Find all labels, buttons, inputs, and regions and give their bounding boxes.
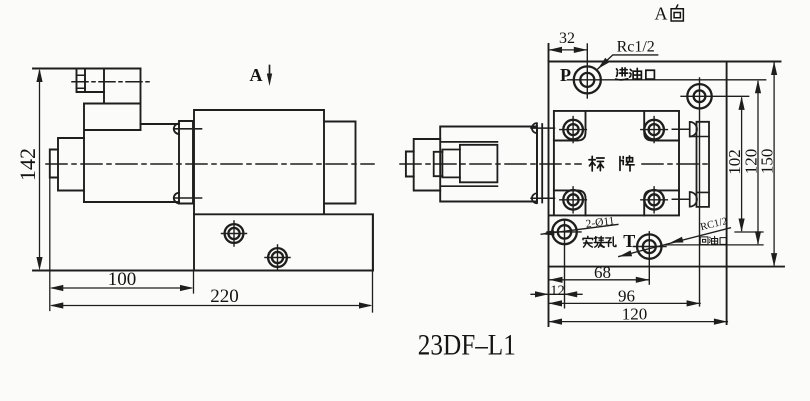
centerline left view bbox=[46, 163, 374, 165]
top extension line (142 dim) / connector top bbox=[33, 68, 141, 70]
inner valve body bbox=[549, 111, 679, 215]
port T extension right bbox=[666, 244, 763, 246]
silhouette pole tube bbox=[414, 139, 441, 191]
dim 120 right bbox=[757, 82, 759, 244]
glyph xiang (A-xiang title) bbox=[671, 5, 683, 21]
tab dome bottom bbox=[690, 192, 697, 207]
pad top-right bbox=[644, 111, 679, 141]
corner bolt TL bbox=[560, 117, 587, 143]
tip pin bbox=[50, 150, 58, 178]
svg-text:142: 142 bbox=[15, 148, 40, 181]
svg-text:T: T bbox=[623, 231, 635, 251]
port P vertical centerline bbox=[586, 44, 588, 98]
silhouette tip bbox=[406, 152, 414, 177]
svg-text:P: P bbox=[560, 65, 571, 85]
dim 96 bbox=[549, 302, 701, 304]
BL hole dim extension near 102 bbox=[735, 231, 763, 233]
leader Rc1/2 bbox=[598, 55, 658, 69]
svg-text:A: A bbox=[655, 4, 668, 24]
BL hole vertical extension bbox=[564, 220, 566, 308]
glyph kou (mouth/port) bbox=[646, 70, 655, 79]
centerline right view bbox=[400, 163, 710, 165]
base bolt 1 bbox=[222, 221, 247, 246]
corner bolt BL bbox=[560, 187, 587, 213]
plate bolt bump bottom bbox=[174, 193, 179, 203]
solenoid main body bbox=[84, 124, 179, 202]
tab tick bottom bbox=[672, 198, 689, 200]
dimension 142 bbox=[39, 71, 41, 264]
corner bolt TR bbox=[641, 117, 668, 143]
corner bolt BR bbox=[641, 187, 668, 213]
dimension 220 bbox=[52, 214, 373, 312]
leader 2-O11 bbox=[541, 224, 618, 234]
connector centerline bbox=[72, 81, 152, 83]
svg-text:32: 32 bbox=[559, 30, 575, 47]
base bottom line + 142 extension bbox=[33, 270, 373, 272]
bottom-left mounting hole bbox=[552, 220, 577, 245]
connector main box bbox=[84, 69, 141, 131]
dim 120 bottom bbox=[549, 321, 728, 323]
dimension 100 bbox=[50, 178, 194, 311]
tab dome top bbox=[690, 122, 697, 137]
glyph kou2 (port, return label) bbox=[720, 238, 726, 245]
top-right mounting hole bbox=[687, 84, 711, 108]
glyph an (install 1) bbox=[583, 236, 593, 247]
BL hole cross bbox=[547, 231, 581, 233]
silhouette box A bbox=[434, 152, 443, 176]
glyph kong (hole) bbox=[606, 237, 616, 247]
svg-text:100: 100 bbox=[108, 269, 137, 290]
port T circles bbox=[637, 234, 661, 258]
leader T port (RC1/2 return) bbox=[619, 228, 731, 257]
glyph hui (return) bbox=[700, 237, 708, 245]
adapter plate verticals bbox=[537, 124, 542, 203]
port P circles bbox=[574, 66, 601, 93]
tab tick top bbox=[672, 128, 689, 130]
silhouette box C bbox=[460, 145, 498, 183]
gland thread lines bbox=[77, 75, 86, 88]
mounting plate bbox=[179, 121, 193, 204]
svg-text:Rc1/2: Rc1/2 bbox=[617, 39, 655, 56]
view arrow A bbox=[269, 66, 271, 75]
pad bottom-right bbox=[644, 190, 679, 215]
svg-text:120: 120 bbox=[622, 305, 648, 324]
pad top-left bbox=[554, 111, 586, 141]
dim 12 bbox=[531, 293, 582, 295]
adapter bump top bbox=[532, 123, 537, 133]
plate bolt bump top bbox=[174, 124, 179, 134]
pad bottom-left bbox=[554, 190, 586, 215]
glyph pai (plate) bbox=[620, 156, 634, 171]
adapter bump bottom bbox=[532, 193, 537, 203]
svg-text:12: 12 bbox=[550, 283, 565, 299]
dim 150 bbox=[773, 63, 775, 265]
end cap bbox=[324, 122, 356, 204]
silhouette box B bbox=[442, 150, 460, 178]
plate tick top bbox=[174, 128, 202, 130]
base bolt 2 bbox=[265, 245, 290, 270]
base block bbox=[194, 214, 373, 270]
top-right hole horizontal extension bbox=[681, 95, 749, 97]
svg-text:A: A bbox=[250, 65, 263, 85]
glyph zhuang (install 2) bbox=[594, 236, 604, 247]
svg-text:220: 220 bbox=[210, 286, 239, 307]
adapter tick bottom bbox=[531, 197, 555, 199]
glyph you2 (oil, return label) bbox=[709, 236, 717, 244]
svg-text:23DF–L1: 23DF–L1 bbox=[418, 328, 516, 361]
pole tube bbox=[58, 138, 84, 191]
glyph you (oil) bbox=[630, 68, 642, 79]
svg-text:RC1/2: RC1/2 bbox=[699, 216, 728, 233]
valve body bbox=[194, 110, 324, 271]
adapter tick top bbox=[531, 127, 555, 129]
base plate outer rect bbox=[549, 61, 781, 63]
dim 102 bbox=[741, 98, 743, 231]
svg-text:150: 150 bbox=[758, 149, 777, 175]
port T cross tick bbox=[634, 246, 667, 248]
svg-text:2-Ø11: 2-Ø11 bbox=[585, 215, 615, 231]
port P horizontal extension bbox=[568, 79, 766, 81]
plate tick bottom bbox=[174, 197, 202, 199]
tab rect tall bbox=[697, 122, 710, 207]
silhouette inner tube lines bbox=[441, 142, 498, 186]
dim 32 bbox=[549, 49, 588, 51]
tab rect inner lines bbox=[690, 137, 709, 193]
glyph jin (into) bbox=[616, 68, 628, 80]
cable gland narrow box bbox=[77, 69, 105, 93]
port T vertical extension bbox=[648, 232, 650, 284]
svg-text:96: 96 bbox=[618, 287, 635, 306]
svg-text:68: 68 bbox=[594, 263, 611, 282]
top-right hole vertical line bbox=[699, 78, 701, 306]
silhouette solenoid body bbox=[440, 127, 537, 202]
coil rear housing bbox=[84, 104, 141, 203]
glyph biao (mark) bbox=[589, 156, 604, 171]
dim 68 bbox=[549, 279, 649, 281]
